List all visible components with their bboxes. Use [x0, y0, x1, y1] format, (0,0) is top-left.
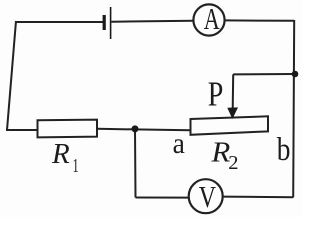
svg-text:A: A [204, 2, 220, 37]
svg-text:R: R [51, 138, 70, 170]
svg-text:2: 2 [228, 152, 238, 174]
svg-text:V: V [199, 179, 216, 214]
svg-text:P: P [208, 75, 224, 114]
svg-text:1: 1 [73, 154, 79, 177]
svg-text:a: a [173, 127, 185, 160]
svg-text:b: b [277, 130, 291, 167]
